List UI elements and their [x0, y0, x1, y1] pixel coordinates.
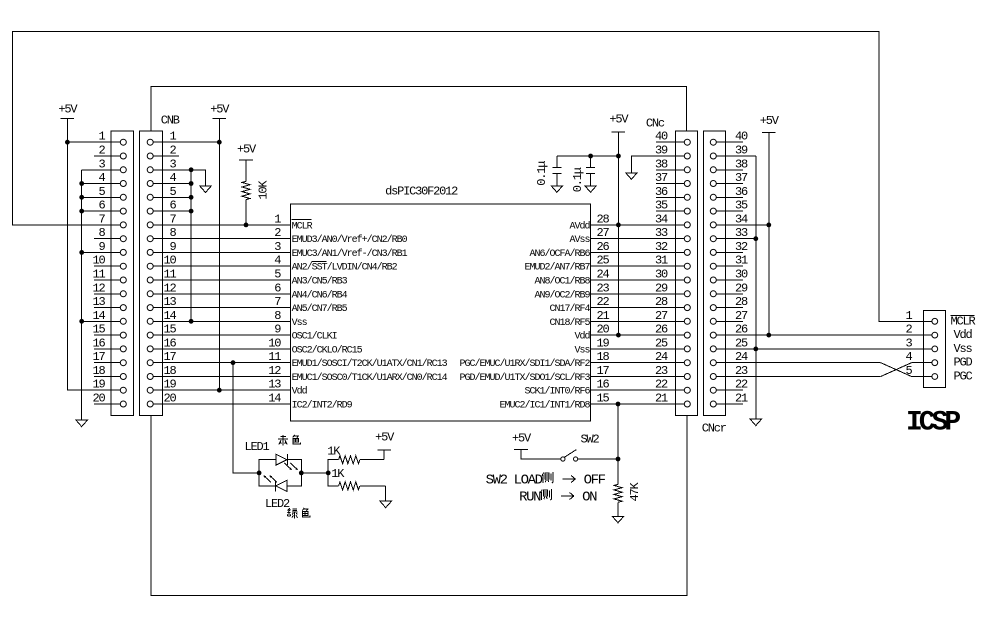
resistor R-1K lower [328, 473, 386, 501]
svg-text:20: 20 [92, 392, 105, 406]
svg-text:LED2: LED2 [265, 497, 290, 511]
svg-text:2: 2 [274, 226, 281, 240]
wire CNB pin14 to IC pin8 [150, 320, 290, 322]
svg-text:18: 18 [92, 364, 105, 378]
svg-text:5: 5 [274, 268, 281, 282]
svg-text:+5V: +5V [609, 113, 629, 127]
svg-text:EMUD1/SOSCI/T2CK/U1ATX/CN1/RC1: EMUD1/SOSCI/T2CK/U1ATX/CN1/RC13 [292, 358, 448, 370]
wire left connector pin20 stub [94, 403, 123, 405]
svg-text:16: 16 [92, 336, 105, 350]
wire CNcr pin39 to ground bus [716, 155, 756, 157]
svg-text:23: 23 [655, 364, 668, 378]
wire CNcr pin26 to ICSP pin2 Vdd [716, 334, 932, 336]
wire IC pin19 to CNc pin25 [591, 348, 685, 350]
junction CNB pin1 +5V [217, 140, 222, 145]
wire CNB pin17 to IC pin11 [150, 362, 290, 364]
wire left connector pin6 to bus [82, 210, 124, 212]
wire LED2 to node right [287, 473, 302, 486]
svg-text:PGC/EMUC/U1RX/SDI1/SDA/RF2: PGC/EMUC/U1RX/SDI1/SDA/RF2 [459, 358, 590, 370]
svg-text:AN6/OCFA/RB6: AN6/OCFA/RB6 [529, 248, 590, 260]
svg-text:25: 25 [597, 254, 610, 268]
svg-text:6: 6 [274, 281, 281, 295]
svg-text:AN8/OC1/RB8: AN8/OC1/RB8 [534, 276, 590, 288]
wire left connector pin11 stub [94, 279, 123, 281]
IC U1 pin1 MCLR overline [292, 219, 312, 221]
wire CNcr pin40 stub [716, 141, 743, 143]
wire CNc pin38 stub [656, 169, 684, 171]
junction caps +5V [616, 154, 621, 159]
svg-text:47K: 47K [628, 481, 642, 501]
svg-text:13: 13 [92, 295, 105, 309]
svg-text:1: 1 [274, 212, 281, 226]
svg-text:17: 17 [163, 350, 176, 364]
wire IC pin25 to CNc pin31 [591, 265, 685, 267]
svg-text:28: 28 [735, 295, 748, 309]
svg-text:+5V: +5V [58, 103, 78, 117]
svg-text:15: 15 [597, 392, 610, 406]
junction left pin1 [65, 140, 70, 145]
wire CNcr pin36 stub [716, 196, 743, 198]
wire CNB pin18 to IC pin12 [150, 376, 290, 378]
svg-text:39: 39 [735, 144, 748, 158]
svg-text:22: 22 [655, 378, 668, 392]
connector J1 left 20-pin box [111, 131, 134, 415]
ground symbol C2 [585, 186, 596, 193]
wire CNB pin19 to IC pin13 [150, 389, 290, 391]
junction left bus pin5 [79, 195, 84, 200]
svg-text:CNc: CNc [646, 117, 665, 131]
svg-text:CNB: CNB [161, 114, 180, 128]
svg-text:34: 34 [735, 212, 748, 226]
svg-text:26: 26 [735, 323, 748, 337]
wire IC pin22 to CNc pin28 [591, 307, 685, 309]
svg-text:EMUD3/AN0/Vref+/CN2/RB0: EMUD3/AN0/Vref+/CN2/RB0 [292, 234, 408, 246]
wire CNcr pin28 stub [716, 307, 743, 309]
svg-text:+5V: +5V [237, 143, 257, 157]
wire +5V bus left (pins 1,19 of left connector) [67, 118, 123, 390]
svg-text:CNcr: CNcr [702, 422, 727, 436]
wire CNB pin9 to IC pin3 [150, 251, 290, 253]
wire IC pin17 to CNc pin23 [591, 376, 685, 378]
junction IC pin15 to SW2 [616, 402, 621, 407]
IC U1 left pin numbers 1-14 [268, 212, 281, 405]
wire +5V bus CNB (pin1 and Vdd row) [218, 118, 220, 390]
+5V symbol center [609, 113, 629, 132]
wire CNcr pin33 to ground bus [716, 238, 756, 240]
svg-text:14: 14 [268, 392, 281, 406]
label LED1 colour (aka-iro red) [278, 435, 300, 446]
wire left connector pin5 to bus [82, 196, 124, 198]
connector J1 pin circles [120, 139, 126, 407]
svg-text:AVss: AVss [569, 235, 590, 246]
wire LED1 to node right [287, 460, 301, 473]
wire ground bus CNB (pins 3,4,5,6,14) [190, 170, 192, 321]
svg-text:7: 7 [98, 212, 105, 226]
+5V symbol 10K pullup [237, 143, 257, 160]
svg-text:30: 30 [735, 268, 748, 282]
wire CNcr pin35 stub [716, 210, 743, 212]
svg-text:23: 23 [735, 364, 748, 378]
wire frame top (CNB top to CNc top) [151, 87, 687, 132]
junction AVdd +5V [616, 223, 621, 228]
wire CNcr pin30 stub [716, 279, 743, 281]
IC U1 left pin labels 1-14 [292, 221, 448, 411]
wire CNB pin6 to ground bus [150, 210, 191, 212]
svg-text:4: 4 [274, 254, 281, 268]
+5V symbol right [760, 114, 780, 133]
svg-text:10K: 10K [257, 180, 271, 200]
wire IC pin16 to CNc pin22 [591, 389, 685, 391]
wire IC pin15 down to SW2 [617, 404, 619, 459]
wire left connector pin10 stub [94, 265, 123, 267]
svg-text:PGD: PGD [954, 356, 973, 370]
svg-text:15: 15 [163, 323, 176, 337]
connector J1 pin numbers 1-20 [92, 130, 105, 406]
svg-text:OSC1/CLKI: OSC1/CLKI [292, 331, 337, 343]
svg-text:5: 5 [169, 185, 176, 199]
resistor R-1K upper [328, 456, 384, 473]
junction Vdd +5V [616, 333, 621, 338]
wire CNB pin2 stub [150, 155, 179, 157]
svg-text:Vdd: Vdd [954, 328, 973, 342]
svg-text:AN9/OC2/RB9: AN9/OC2/RB9 [534, 289, 590, 301]
wire left connector pin3 to bus [82, 169, 124, 171]
svg-text:Vss: Vss [292, 318, 308, 329]
svg-text:+5V: +5V [210, 103, 230, 117]
svg-text:31: 31 [655, 254, 668, 268]
svg-text:PGC: PGC [954, 370, 973, 384]
svg-text:4: 4 [905, 350, 912, 364]
junction pin33 ground [753, 236, 758, 241]
svg-text:0.1μ: 0.1μ [571, 167, 585, 192]
svg-text:38: 38 [655, 157, 668, 171]
junction C2 tap [588, 154, 593, 159]
junction pin34 +5V [766, 223, 771, 228]
wire CNB pin12 to IC pin6 [150, 293, 290, 295]
svg-text:24: 24 [597, 268, 610, 282]
svg-text:40: 40 [655, 130, 668, 144]
junction CNB bus row14 [189, 319, 194, 324]
capacitor C2 0.1u [586, 156, 595, 186]
wire ground bus left (pins 3,4,5,6,9,14) [81, 170, 83, 420]
svg-text:34: 34 [655, 212, 668, 226]
svg-text:dsPIC30F2012: dsPIC30F2012 [385, 185, 458, 199]
wire left connector pin2 stub [94, 155, 123, 157]
wire +5V bus center (caps, AVdd, Vdd) [617, 132, 619, 335]
wire CNB pin4 to ground bus [150, 183, 191, 185]
ground symbol CNc pin39 [626, 173, 637, 180]
svg-text:37: 37 [655, 171, 668, 185]
junction pin26 +5V [766, 333, 771, 338]
wire IC pin23 to CNc pin29 [591, 293, 685, 295]
junction CNB bus row6 [189, 209, 194, 214]
svg-text:ICSP: ICSP [906, 408, 960, 439]
svg-text:33: 33 [655, 226, 668, 240]
junction CNB bus row3 [189, 167, 194, 172]
svg-text:2: 2 [169, 144, 176, 158]
junction Vdd row +5V [217, 388, 222, 393]
wire left connector pin8 stub [94, 238, 123, 240]
LED2 emission arrows [264, 475, 278, 482]
+5V symbol CNB [210, 103, 230, 119]
svg-text:36: 36 [655, 185, 668, 199]
svg-text:SW2: SW2 [581, 432, 600, 446]
junction left bus pin14 [79, 319, 84, 324]
svg-text:7: 7 [169, 212, 176, 226]
svg-text:3: 3 [98, 157, 105, 171]
wire CNB pin5 to ground bus [150, 196, 191, 198]
wire CNB pin20 to IC pin14 [150, 403, 290, 405]
svg-text:38: 38 [735, 157, 748, 171]
wire IC pin28 to CNc pin34 [591, 224, 685, 226]
svg-text:10: 10 [163, 254, 176, 268]
resistor R-47K [614, 459, 622, 516]
svg-text:22: 22 [597, 295, 610, 309]
svg-text:9: 9 [274, 323, 281, 337]
junction CNB bus row5 [189, 195, 194, 200]
connector CNc pin numbers 40-21 [655, 130, 668, 406]
switch SW2 [561, 450, 578, 462]
svg-text:AN4/CN6/RB4: AN4/CN6/RB4 [292, 289, 348, 301]
svg-text:0.1μ: 0.1μ [535, 161, 549, 186]
wire CNB pin11 to IC pin5 [150, 279, 290, 281]
wire switch to junction [578, 458, 618, 460]
svg-text:33: 33 [735, 226, 748, 240]
svg-text:MCLR: MCLR [292, 221, 313, 232]
svg-text:PGD/EMUD/U1TX/SDO1/SCL/RF3: PGD/EMUD/U1TX/SDO1/SCL/RF3 [459, 372, 590, 384]
wire CNcr pin34 to +5V bus [716, 224, 769, 226]
svg-text:11: 11 [163, 268, 176, 282]
svg-text:36: 36 [735, 185, 748, 199]
svg-text:9: 9 [169, 240, 176, 254]
+5V symbol SW2 [512, 432, 532, 450]
svg-text:26: 26 [597, 240, 610, 254]
svg-text:2: 2 [98, 144, 105, 158]
wire IC pin15 to CNc pin21 [591, 403, 685, 405]
wire IC pin27 to CNc pin33 [591, 238, 685, 240]
svg-text:29: 29 [735, 281, 748, 295]
junction left bus pin6 [79, 209, 84, 214]
svg-text:19: 19 [597, 336, 610, 350]
LED1 emission arrows [285, 463, 299, 470]
svg-text:32: 32 [735, 240, 748, 254]
connector ICSP pin circles [932, 318, 938, 379]
connector ICSP pin numbers 1-5 [905, 309, 912, 378]
svg-text:18: 18 [597, 350, 610, 364]
svg-text:OFF: OFF [584, 473, 606, 489]
svg-text:+5V: +5V [760, 114, 780, 128]
LED2 diode (green) [276, 480, 287, 491]
wire IC pin11 tap junction [231, 360, 236, 365]
svg-text:4: 4 [169, 171, 176, 185]
svg-text:39: 39 [655, 144, 668, 158]
svg-text:EMUC3/AN1/Vref-/CN3/RB1: EMUC3/AN1/Vref-/CN3/RB1 [292, 248, 408, 260]
wire left connector pin17 stub [94, 362, 123, 364]
svg-text:+5V: +5V [375, 431, 395, 445]
svg-text:1: 1 [905, 309, 912, 323]
wire CNc pin40 stub [656, 141, 684, 143]
wire IC pin24 to CNc pin30 [591, 279, 685, 281]
svg-text:7: 7 [274, 295, 281, 309]
LED1 diode (red) [276, 454, 288, 465]
IC U1 pin4 SST overline [312, 260, 327, 262]
svg-text:9: 9 [98, 240, 105, 254]
junction 10K to MCLR row [244, 223, 249, 228]
wire CNcr pin27 stub [716, 320, 743, 322]
svg-text:8: 8 [274, 309, 281, 323]
svg-text:24: 24 [655, 350, 668, 364]
svg-text:22: 22 [735, 378, 748, 392]
wire IC pin18 to CNc pin24 [591, 362, 685, 364]
+5V symbol far left [58, 103, 78, 119]
wire IC pin20 to CNc pin26 [591, 334, 685, 336]
wire left connector pin18 stub [94, 376, 123, 378]
svg-text:LED1: LED1 [245, 440, 270, 454]
svg-text:3: 3 [169, 157, 176, 171]
wire CNcr pin31 stub [716, 265, 743, 267]
capacitor C1 0.1u [552, 156, 561, 186]
wire left connector pin13 stub [94, 307, 123, 309]
svg-text:19: 19 [163, 378, 176, 392]
label LED2 colour (midori-iro green) [287, 508, 310, 518]
IC U1 right pin labels 28-15 [459, 220, 590, 411]
node LED right [299, 471, 304, 476]
wire left connector pin9 to bus [82, 251, 124, 253]
wire CNcr pin23 to crossover [716, 376, 880, 378]
svg-text:35: 35 [735, 199, 748, 213]
svg-text:10: 10 [92, 254, 105, 268]
ground symbol CNB [200, 186, 211, 193]
wire left connector pin16 stub [94, 348, 123, 350]
svg-text:27: 27 [735, 309, 748, 323]
svg-text:1K: 1K [331, 467, 345, 481]
wire +5V bus right (pins 34,26) [768, 133, 770, 335]
svg-text:1: 1 [169, 130, 176, 144]
wire frame bottom (CNB bottom to CNc bottom) [151, 415, 687, 595]
svg-text:18: 18 [163, 364, 176, 378]
svg-text:AN3/CN5/RB3: AN3/CN5/RB3 [292, 276, 348, 288]
svg-text:21: 21 [597, 309, 610, 323]
ICSP MCLR overline [951, 315, 975, 317]
svg-text:1: 1 [98, 130, 105, 144]
svg-text:20: 20 [597, 323, 610, 337]
svg-text:RUN: RUN [519, 490, 541, 506]
connector CNcr box [703, 131, 725, 415]
svg-text:40: 40 [735, 130, 748, 144]
svg-text:13: 13 [268, 378, 281, 392]
wire MCLR net outer loop (left connector pin7 to ICSP pin1) [13, 32, 933, 322]
svg-text:Vss: Vss [954, 342, 973, 356]
svg-text:23: 23 [597, 281, 610, 295]
svg-text:5: 5 [905, 364, 912, 378]
svg-text:29: 29 [655, 281, 668, 295]
svg-text:31: 31 [735, 254, 748, 268]
wire CNcr pin37 stub [716, 183, 743, 185]
wire CNcr pin22 stub [716, 389, 743, 391]
wire left connector pin12 stub [94, 293, 123, 295]
wire 1K to +5V [383, 450, 385, 460]
svg-text:14: 14 [92, 309, 105, 323]
wire CNcr pin32 stub [716, 251, 743, 253]
resistor R-10K [242, 160, 250, 225]
connector CNc box [676, 131, 698, 415]
annotation SW2 LOAD line [486, 472, 606, 489]
wire CNB pin3 to ground bus [150, 169, 191, 171]
svg-text:3: 3 [905, 336, 912, 350]
svg-text:3: 3 [274, 240, 281, 254]
svg-text:28: 28 [597, 212, 610, 226]
svg-text:20: 20 [163, 392, 176, 406]
svg-text:28: 28 [655, 295, 668, 309]
connector CNB pin circles [147, 139, 153, 407]
svg-text:MCLR: MCLR [951, 314, 976, 328]
wire left connector pin14 to bus [82, 320, 124, 322]
ground symbol LED [380, 501, 391, 508]
svg-text:17: 17 [597, 364, 610, 378]
svg-text:EMUC1/SOSC0/T1CK/U1ARX/CN0/RC1: EMUC1/SOSC0/T1CK/U1ARX/CN0/RC14 [292, 372, 448, 384]
junction 1K resistors [326, 471, 331, 476]
wire CNcr pin24 to crossover [716, 362, 880, 364]
node LED left [257, 471, 262, 476]
wire CNB pin16 to IC pin10 [150, 348, 290, 350]
junction pin25 ground [753, 347, 758, 352]
wire CNB pin15 to IC pin9 [150, 334, 290, 336]
wire crossover PGD/PGC [881, 363, 932, 377]
svg-text:35: 35 [655, 199, 668, 213]
svg-text:11: 11 [268, 350, 281, 364]
svg-text:AVdd: AVdd [569, 220, 590, 232]
svg-text:Vdd: Vdd [292, 386, 308, 398]
svg-text:2: 2 [905, 323, 912, 337]
wire CNB pin10 to IC pin4 [150, 265, 290, 267]
wire capacitor net to +5V [557, 155, 619, 157]
svg-text:12: 12 [163, 281, 176, 295]
svg-text:OSC2/CKLO/RC15: OSC2/CKLO/RC15 [292, 344, 363, 356]
svg-text:EMUD2/AN7/RB7: EMUD2/AN7/RB7 [524, 262, 590, 274]
svg-text:1K: 1K [327, 445, 341, 459]
wire CNcr pin25 to ICSP pin3 Vss [716, 348, 932, 350]
svg-text:12: 12 [92, 281, 105, 295]
junction left bus pin9 [79, 250, 84, 255]
svg-text:+5V: +5V [512, 432, 532, 446]
junction SW2 node [616, 457, 621, 462]
svg-text:SW2 LOAD: SW2 LOAD [486, 473, 543, 489]
IC U1 right pin numbers 28-15 [597, 212, 610, 405]
wire LED to resistor junction [301, 472, 328, 474]
ground symbol C1 [551, 186, 562, 193]
wire left connector pin1 to +5V bus [67, 141, 123, 143]
svg-text:19: 19 [92, 378, 105, 392]
wire CNc pin39 to ground [631, 156, 684, 173]
connector CNB box [139, 131, 162, 415]
svg-text:4: 4 [98, 171, 105, 185]
svg-text:16: 16 [597, 378, 610, 392]
svg-text:25: 25 [735, 336, 748, 350]
svg-text:EMUC2/IC1/INT1/RD8: EMUC2/IC1/INT1/RD8 [499, 400, 590, 412]
ground symbol right bus [750, 419, 761, 426]
junction left bus pin4 [79, 181, 84, 186]
svg-text:30: 30 [655, 268, 668, 282]
wire LED branch bottom [259, 473, 275, 486]
wire CNB pin1 to +5V bus [150, 141, 219, 143]
svg-text:AN5/CN7/RB5: AN5/CN7/RB5 [292, 303, 348, 315]
wire CNcr pin21 stub [716, 403, 743, 405]
svg-text:26: 26 [655, 323, 668, 337]
svg-text:17: 17 [92, 350, 105, 364]
wire CNB pin13 to IC pin7 [150, 307, 290, 309]
wire IC pin26 to CNc pin32 [591, 251, 685, 253]
wire CNc pin37 stub [656, 183, 684, 185]
